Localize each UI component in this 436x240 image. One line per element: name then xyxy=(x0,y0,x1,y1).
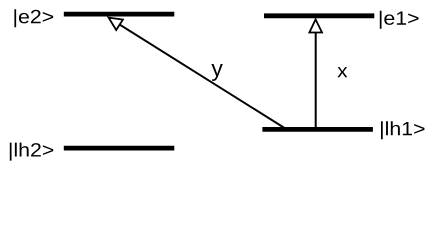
level line |lh2&gt; xyxy=(64,146,175,151)
label |lh1&gt; xyxy=(381,121,424,139)
level line |e1&gt; xyxy=(264,13,374,18)
label |e1&gt; xyxy=(380,11,419,29)
arrowhead: y-transition open triangular head at |e2> xyxy=(109,18,123,30)
level line |lh1&gt; xyxy=(262,127,373,132)
label y xyxy=(211,64,222,81)
level line |e2&gt; xyxy=(64,12,175,17)
label |lh2&gt; xyxy=(10,143,53,161)
arrowhead: x-transition open triangular head at |e1> xyxy=(309,19,322,32)
wire: y-transition shaft from |lh1> up to |e2> xyxy=(120,25,285,128)
label |e2&gt; xyxy=(14,9,53,27)
wire: x-transition shaft from |lh1> up to |e1> xyxy=(315,33,317,128)
label x xyxy=(337,67,347,77)
